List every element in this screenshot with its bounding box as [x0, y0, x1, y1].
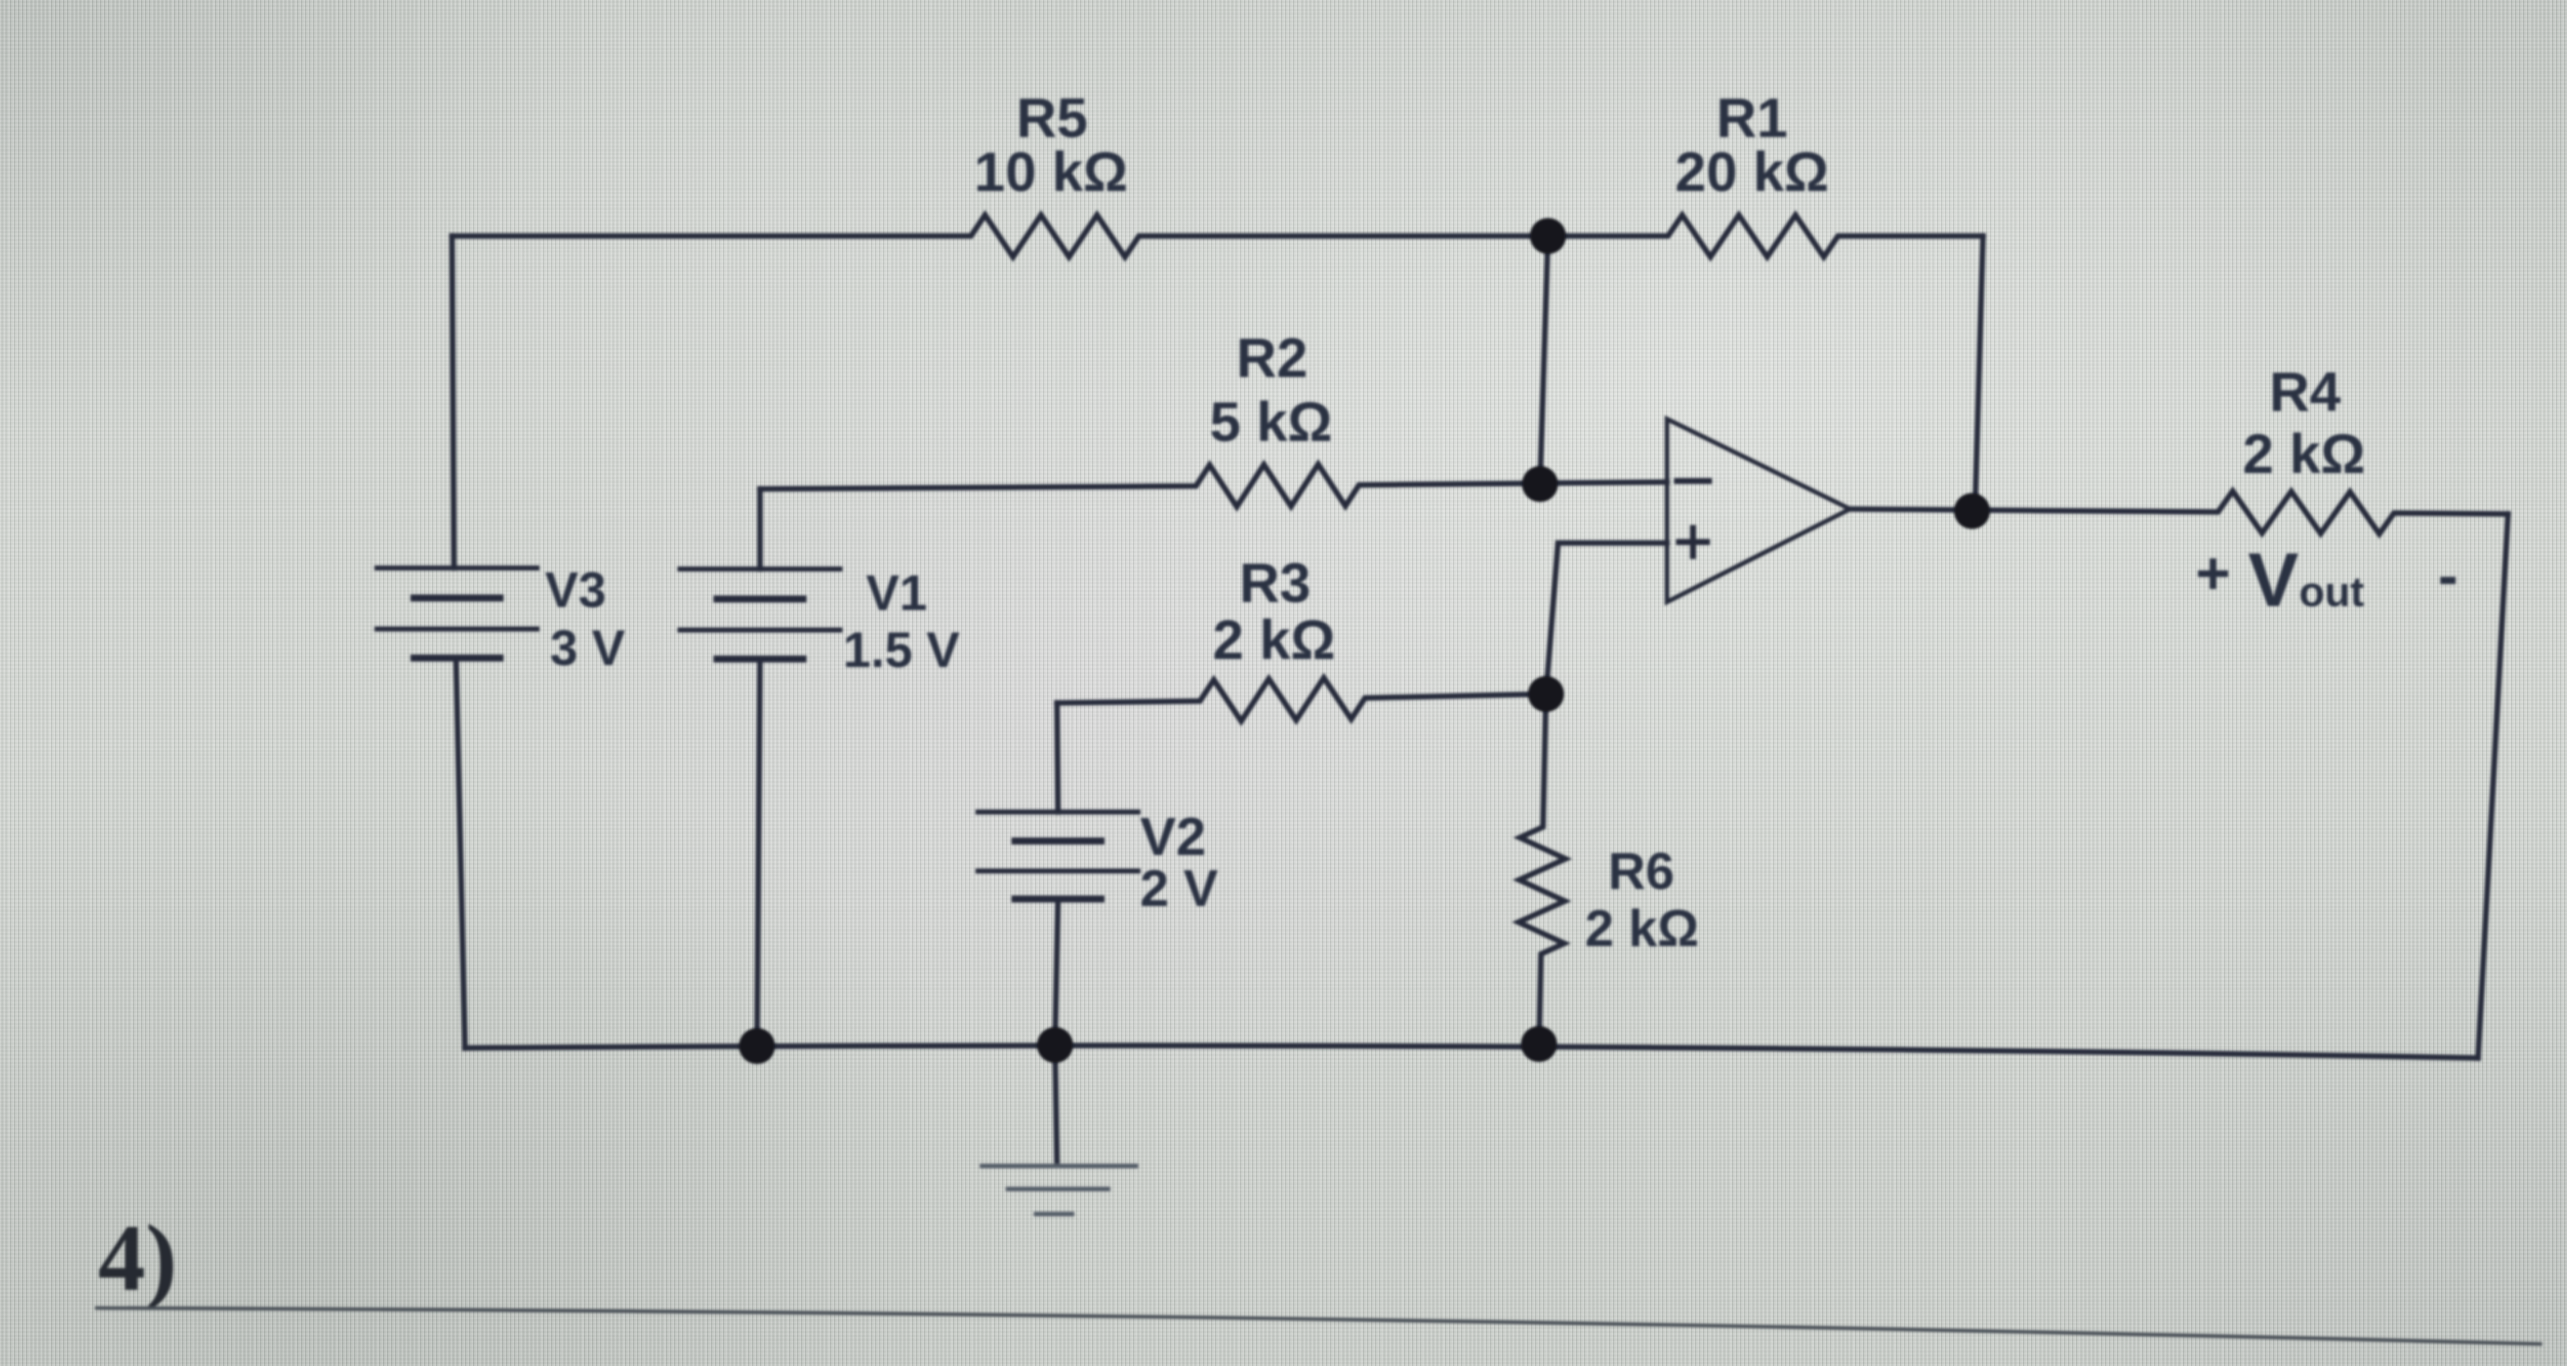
svg-text:20 kΩ: 20 kΩ	[1675, 140, 1829, 203]
svg-text:V3: V3	[545, 562, 606, 618]
svg-text:V2: V2	[1140, 807, 1206, 867]
svg-text:5 kΩ: 5 kΩ	[1210, 390, 1333, 453]
svg-text:R6: R6	[1608, 843, 1674, 901]
svg-text:1.5 V: 1.5 V	[843, 622, 960, 678]
svg-text:R4: R4	[2269, 360, 2341, 423]
svg-text:10 kΩ: 10 kΩ	[974, 140, 1128, 203]
svg-text:4): 4)	[98, 1205, 177, 1311]
svg-text:V: V	[2248, 538, 2299, 623]
svg-text:+: +	[2195, 540, 2230, 607]
svg-text:2 V: 2 V	[1140, 860, 1218, 918]
svg-text:V1: V1	[866, 565, 927, 621]
svg-text:3 V: 3 V	[550, 620, 626, 676]
svg-text:2 kΩ: 2 kΩ	[1585, 900, 1699, 958]
svg-text:R2: R2	[1236, 326, 1308, 389]
svg-text:-: -	[2438, 542, 2458, 609]
svg-text:2 kΩ: 2 kΩ	[2243, 422, 2366, 485]
svg-text:R3: R3	[1239, 551, 1311, 614]
svg-text:2 kΩ: 2 kΩ	[1213, 608, 1336, 671]
svg-text:out: out	[2299, 568, 2364, 615]
